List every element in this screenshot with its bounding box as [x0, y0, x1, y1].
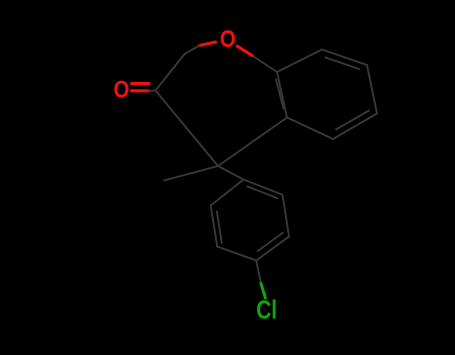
wire: benzo inner double C7-C6	[336, 111, 369, 130]
wire: chlorophenyl edge C5'-C6'	[211, 206, 218, 247]
wire: chlorophenyl edge C4'-C5'	[217, 247, 256, 261]
node O: carbonyl oxygen label	[113, 76, 129, 103]
svg-text:O: O	[220, 26, 236, 53]
wire: benzo ring edge C5a-C9a	[277, 72, 287, 118]
wire: benzo ring edge C9a-C9	[277, 50, 322, 73]
wire: chlorophenyl inner double C3'-C4'	[258, 233, 283, 251]
wire: benzo ring edge C8-C7	[367, 65, 377, 114]
wire: bond C4'-Cl green half	[261, 284, 265, 299]
node Cl: chlorine label	[256, 296, 277, 324]
wire: bond C5-C1'	[218, 166, 244, 180]
wire: benzo ring edge C9-C8	[322, 50, 367, 66]
wire: chlorophenyl edge C2'-C3'	[283, 195, 290, 237]
wire: benzo inner double C5a-C9a	[276, 80, 284, 109]
wire: bond O1-C9a red half	[237, 46, 253, 56]
wire: bond O1-C2 dark half	[185, 46, 200, 55]
wire: bond C4'-Cl dark half	[256, 261, 261, 284]
wire: chlorophenyl inner double C1'-C2'	[248, 187, 278, 199]
wire: chlorophenyl inner double C5'-C6'	[217, 212, 222, 244]
wire: bond C5-C5a	[218, 118, 287, 167]
wire: bond C2-C3	[156, 54, 185, 91]
wire: benzo inner double C9-C8	[326, 58, 360, 70]
wire: bond C5-CH3	[164, 166, 218, 181]
wire: benzo ring edge C7-C6	[333, 114, 377, 140]
wire: chlorophenyl edge C1'-C2'	[244, 180, 283, 195]
wire: chlorophenyl edge C3'-C4'	[256, 237, 289, 261]
wire: carbonyl C3=O main line red	[132, 89, 150, 92]
svg-text:O: O	[113, 76, 129, 103]
wire: carbonyl C3=O main line dark tail	[149, 90, 156, 92]
wire: benzo ring edge C6-C5a	[287, 118, 333, 140]
svg-text:Cl: Cl	[256, 296, 277, 324]
wire: bond O1-C2 red half	[200, 42, 216, 46]
wire: carbonyl C3=O second line red	[132, 82, 150, 85]
wire: chlorophenyl edge C6'-C1'	[211, 180, 244, 206]
wire: bond C3-C5 long line	[156, 91, 219, 167]
node O1: ring oxygen label	[220, 26, 236, 53]
wire: bond O1-C9a dark half	[253, 56, 277, 72]
